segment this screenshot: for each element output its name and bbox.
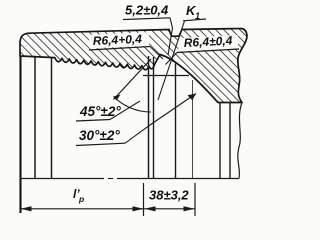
label shelf white patches <box>89 32 150 48</box>
svg-text:38±3,2: 38±3,2 <box>149 188 189 203</box>
left pipe verticals <box>19 56 21 213</box>
arrows <box>21 206 32 211</box>
svg-text:30°±2°: 30°±2° <box>79 128 120 143</box>
svg-text:5,2±0,4: 5,2±0,4 <box>125 3 169 18</box>
bottom horizontal line <box>20 178 104 180</box>
svg-text:p: p <box>78 194 84 204</box>
svg-text:R6,4±0,4: R6,4±0,4 <box>183 33 233 50</box>
right break line below <box>238 103 242 179</box>
center verticals <box>148 56 150 179</box>
dimension line <box>21 208 196 210</box>
45 deg line + arc <box>114 59 152 100</box>
svg-text:R6,4+0,4: R6,4+0,4 <box>93 32 143 48</box>
thread runout root line <box>143 75 189 77</box>
section body (pipe wall + coupling, hatched) <box>20 28 247 102</box>
extension lines bottom <box>143 183 145 216</box>
